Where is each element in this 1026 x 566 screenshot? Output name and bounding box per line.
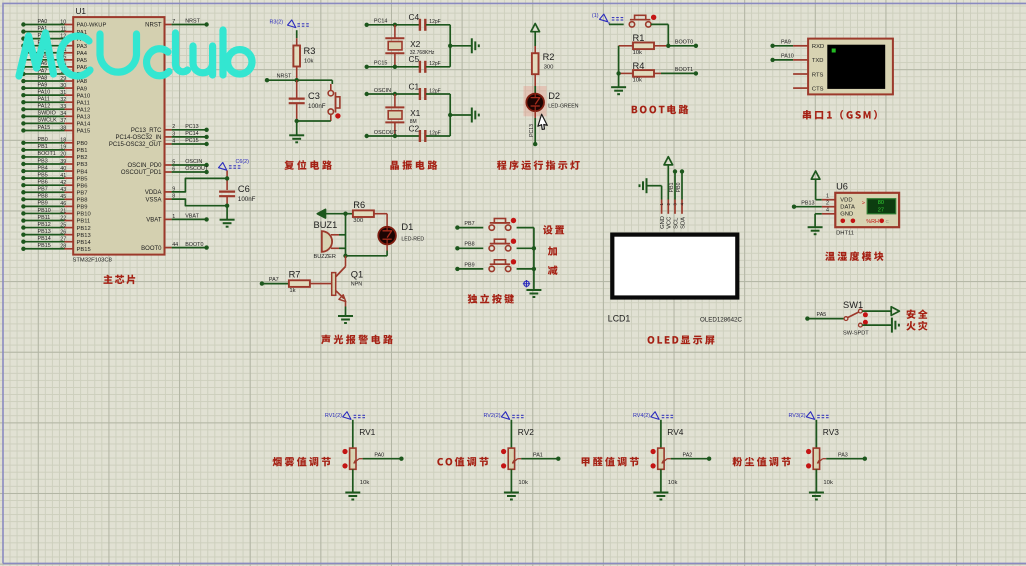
resistor R4 (619, 72, 633, 74)
title 烟雾值调节 (272, 457, 330, 467)
svg-text:RV1(2): RV1(2) (325, 413, 342, 419)
svg-text:R2: R2 (543, 52, 555, 62)
svg-text:PC13_RTC: PC13_RTC (131, 128, 162, 134)
wire OLED GND (647, 185, 662, 187)
title temperature humidity module (825, 251, 883, 261)
svg-text:PA14: PA14 (77, 122, 92, 128)
svg-text:4: 4 (826, 208, 829, 214)
wire alarm top node (343, 212, 347, 216)
svg-text:D2: D2 (548, 91, 560, 101)
svg-text:PB4: PB4 (38, 165, 48, 171)
wire PA2 row (21, 33, 73, 41)
svg-text:LED-GREEN: LED-GREEN (548, 103, 579, 109)
svg-text:PA0: PA0 (374, 452, 384, 458)
capacitor C5 (419, 61, 421, 73)
potentiometer RV4 (658, 448, 664, 469)
wire C4 right (426, 24, 450, 26)
svg-text:45: 45 (60, 194, 66, 200)
wire PA5 row (21, 54, 73, 62)
svg-text:PB14: PB14 (38, 236, 51, 242)
svg-text:30: 30 (60, 83, 66, 89)
ground alarm (338, 315, 353, 317)
wire PB0 row (21, 137, 73, 145)
wire net OSCIN (365, 92, 369, 96)
label minus key (548, 265, 558, 275)
svg-text:300: 300 (544, 65, 555, 71)
wire PA0 row (21, 19, 73, 27)
wire RV3 to ground (815, 469, 817, 492)
wire net PA7 (260, 281, 264, 285)
virtual terminal cursor (832, 49, 836, 53)
svg-text:>: > (862, 201, 865, 207)
wire RV2 to ground (510, 469, 512, 492)
svg-text:BOOT0: BOOT0 (185, 242, 203, 248)
chip pin PC13 (2) (165, 129, 172, 131)
power arrow SW1 (891, 307, 899, 316)
svg-text:PB1: PB1 (77, 148, 88, 154)
svg-text:37: 37 (60, 118, 66, 124)
svg-text:80: 80 (878, 200, 884, 206)
svg-text:PA10: PA10 (38, 89, 51, 95)
virtual terminal screen (827, 45, 885, 89)
module U6 box (835, 193, 899, 227)
svg-text:U1: U1 (76, 7, 87, 16)
DHT11 pin GND (822, 213, 836, 215)
svg-text:PA3: PA3 (77, 44, 88, 50)
svg-text:PB10: PB10 (38, 208, 51, 214)
svg-text:PC15: PC15 (185, 138, 199, 144)
svg-text:VBAT: VBAT (146, 218, 162, 224)
capacitor C6 (219, 191, 235, 193)
svg-text:PC14: PC14 (185, 131, 199, 137)
label set key (543, 225, 564, 234)
svg-text:PB5: PB5 (77, 176, 88, 182)
svg-text:1: 1 (826, 193, 829, 199)
wire PA6 row (21, 61, 73, 69)
svg-text:PA11: PA11 (38, 97, 50, 103)
wire PB2 row (21, 151, 73, 159)
chip pin PC15 (4) (165, 143, 172, 145)
svg-text:PA5: PA5 (77, 58, 88, 64)
wire PB1 row (21, 144, 73, 152)
wire R7 to base (311, 283, 332, 285)
svg-text:C3: C3 (308, 91, 320, 101)
wire BOOT left bus (618, 46, 620, 87)
svg-text:PB8: PB8 (464, 242, 474, 248)
svg-text:PB7: PB7 (77, 190, 88, 196)
wire net PB0 SDA (680, 169, 684, 173)
svg-text:BUZ1: BUZ1 (314, 220, 338, 230)
DHT11 pin VDD (822, 199, 836, 201)
svg-text:PB1: PB1 (669, 182, 675, 192)
terminal R3(2) (288, 20, 296, 28)
wire PB4 row (21, 165, 73, 173)
wire button bottom to C3 bottom (330, 114, 332, 121)
svg-text:SCL: SCL (673, 217, 679, 229)
svg-text:GND: GND (660, 216, 666, 229)
svg-text:RV4(2): RV4(2) (633, 413, 650, 419)
title main chip (103, 275, 135, 285)
svg-text:PA1: PA1 (533, 452, 543, 458)
capacitor C3 (296, 80, 298, 99)
wire SW1 bottom throw (862, 324, 891, 326)
svg-text:PC13: PC13 (185, 124, 199, 130)
svg-text:RTS: RTS (812, 72, 824, 78)
ground crystal X2 (471, 38, 473, 53)
capacitor C2 (419, 130, 421, 142)
svg-text:PC14: PC14 (374, 19, 388, 25)
wire PA13 row (21, 111, 73, 119)
svg-text:PB7: PB7 (464, 221, 474, 227)
svg-text:PB14: PB14 (77, 240, 92, 246)
svg-text:C5: C5 (409, 54, 420, 64)
svg-text:PB6: PB6 (77, 183, 88, 189)
svg-text:SWDIO: SWDIO (38, 111, 56, 117)
wire PA10 row (21, 89, 73, 97)
wire PA7 row (21, 68, 73, 76)
svg-text:SW-SPDT: SW-SPDT (843, 331, 869, 337)
wire net PC15 (365, 65, 369, 69)
wire PA3 row (21, 40, 73, 48)
wire PA12 row (21, 104, 73, 112)
title 粉尘值调节 (732, 457, 790, 467)
wire PA9 row (21, 82, 73, 90)
potentiometer RV1 (350, 448, 356, 469)
wire terminal to RV1 (352, 420, 354, 448)
svg-text:PB13: PB13 (77, 233, 91, 239)
svg-text:PA4: PA4 (77, 51, 88, 57)
svg-text:LCD1: LCD1 (608, 313, 631, 323)
svg-text:PB15: PB15 (77, 247, 91, 253)
chip pin OSCIN (5) (165, 164, 172, 166)
svg-text:SDA: SDA (680, 217, 686, 229)
svg-text:PB11: PB11 (77, 219, 91, 225)
wire VSSA to C6 (172, 199, 228, 206)
svg-text:RV2(2): RV2(2) (484, 413, 501, 419)
svg-text:10k: 10k (823, 480, 833, 486)
wire RV4 to ground (660, 469, 662, 492)
wire terminal to RV3 (815, 420, 817, 448)
svg-text:RXD: RXD (812, 44, 824, 50)
push button PB9 (489, 266, 494, 271)
svg-text:R1: R1 (633, 33, 645, 43)
svg-text:SW1: SW1 (843, 300, 863, 310)
svg-text:PB1: PB1 (38, 144, 48, 150)
title independent keys (468, 294, 514, 304)
svg-text:RV4: RV4 (667, 427, 683, 437)
chip pin OSCOUT (6) (165, 171, 172, 173)
svg-text:PA5: PA5 (817, 312, 827, 318)
ground BOOT (611, 86, 626, 88)
svg-text:PA7: PA7 (269, 277, 279, 283)
svg-text:33: 33 (60, 104, 66, 110)
wire PB3 row (21, 158, 73, 166)
label fire (906, 321, 927, 331)
wire PA14 row (21, 118, 73, 126)
svg-text:PA15: PA15 (77, 129, 91, 135)
origin marker (524, 281, 529, 286)
svg-text:PC14-OSC32_IN: PC14-OSC32_IN (115, 135, 161, 141)
svg-text:PA11: PA11 (77, 100, 90, 106)
svg-text:PA3: PA3 (838, 452, 848, 458)
transistor Q1 (345, 256, 347, 267)
svg-text:R3(2): R3(2) (270, 19, 284, 25)
svg-text:PA12: PA12 (77, 107, 91, 113)
wire PA4 row (21, 47, 73, 55)
wire DHT11 GND to ground (815, 213, 822, 215)
svg-text:NRST: NRST (277, 74, 292, 80)
svg-text:VCC: VCC (667, 217, 673, 229)
svg-text:R4: R4 (633, 61, 645, 71)
mouse cursor (537, 114, 550, 130)
power arrow alarm (317, 209, 325, 218)
crystal X2 (394, 25, 396, 38)
title 甲醛值调节 (582, 457, 639, 467)
wire R3 top (296, 30, 298, 38)
svg-text:C2: C2 (409, 123, 420, 133)
chip pin VDDA (9) (165, 191, 172, 193)
ground SW1 (891, 318, 893, 333)
svg-text:PA2: PA2 (683, 452, 693, 458)
wire RV1 to ground (352, 469, 354, 492)
wire net PA9 (770, 44, 774, 48)
svg-text:RV3: RV3 (823, 427, 839, 437)
svg-text:RV3(2): RV3(2) (789, 413, 806, 419)
svg-text:PB8: PB8 (38, 194, 48, 200)
wire PA1 row (21, 26, 73, 34)
svg-text:29: 29 (60, 76, 66, 82)
svg-text:OSCIN: OSCIN (185, 159, 202, 165)
wire D1 to collector node (386, 244, 388, 250)
svg-text:PA13: PA13 (77, 115, 91, 121)
svg-text:PA10: PA10 (781, 54, 794, 60)
wire net PB1 SCL (673, 169, 677, 173)
svg-text:PB4: PB4 (77, 169, 89, 175)
LED D2 (534, 86, 536, 94)
title OLED display (648, 335, 715, 344)
svg-text:BOOT1: BOOT1 (675, 67, 693, 73)
svg-text:42: 42 (60, 180, 66, 186)
svg-text:VDDA: VDDA (145, 190, 162, 196)
wire PB6 row (21, 179, 73, 187)
svg-text:27: 27 (878, 208, 884, 214)
wire net BOOT0 (666, 44, 670, 48)
svg-text:NRST: NRST (185, 19, 200, 25)
potentiometer RV3 (813, 448, 819, 469)
terminal RV4(2) (651, 412, 659, 420)
svg-text:34: 34 (60, 111, 66, 117)
wire net PA0 (363, 458, 402, 460)
push button PB8 (489, 246, 494, 251)
svg-text:27: 27 (60, 237, 66, 243)
ground OLED GND pin (646, 178, 648, 193)
wire terminal to button (608, 22, 610, 24)
svg-text:LED-RED: LED-RED (401, 237, 424, 243)
svg-text:20: 20 (60, 152, 66, 158)
svg-text:PB9: PB9 (38, 201, 48, 207)
svg-text:%RH: %RH (866, 219, 879, 225)
wire to R2 (534, 46, 536, 53)
svg-text:31: 31 (60, 90, 66, 96)
wire net PA3 (826, 458, 865, 460)
wire C6 bottom (226, 196, 228, 206)
chip pin VBAT (1) (165, 218, 172, 220)
svg-text:PB5: PB5 (38, 172, 48, 178)
wire PB9 row (21, 201, 73, 209)
wire NRST down to button (331, 80, 333, 84)
svg-text:PC15-OSC32_OUT: PC15-OSC32_OUT (109, 142, 162, 148)
svg-text:RV2: RV2 (518, 427, 534, 437)
svg-text:PB11: PB11 (38, 215, 51, 221)
highlight box D2 (524, 86, 547, 116)
svg-text:PB15: PB15 (38, 243, 51, 249)
title crystal circuit (390, 160, 437, 170)
svg-text:STM32F103C8: STM32F103C8 (73, 257, 112, 263)
virtual terminal box (808, 39, 893, 95)
svg-text:PB3: PB3 (38, 158, 48, 164)
svg-text:PB9: PB9 (77, 205, 88, 211)
svg-text:PB3: PB3 (77, 162, 88, 168)
svg-text:BUZZER: BUZZER (314, 254, 336, 260)
svg-text:10: 10 (60, 19, 66, 25)
svg-text:19: 19 (60, 145, 66, 151)
svg-text:R6: R6 (353, 200, 365, 210)
resistor R3 (293, 46, 300, 67)
svg-text:100nF: 100nF (308, 103, 326, 110)
wire net PA1 (521, 458, 558, 460)
ground reset circuit (289, 134, 304, 136)
wire C2 right (426, 135, 450, 137)
wire net PB7 (455, 225, 459, 229)
DHT11 display screen (867, 199, 896, 214)
svg-text:300: 300 (353, 218, 364, 224)
wire PB8 row (21, 194, 73, 202)
svg-text:21: 21 (60, 208, 66, 214)
svg-text:10k: 10k (633, 77, 643, 83)
ground keys (526, 289, 541, 291)
terminal RV2(2) (501, 412, 509, 420)
svg-text:PA15: PA15 (38, 125, 51, 131)
title reset circuit (284, 160, 332, 170)
svg-text:PB10: PB10 (77, 212, 91, 218)
ground DHT11 (808, 226, 823, 228)
wire C3 to ground (296, 103, 298, 121)
power arrow OLED VCC (664, 157, 673, 165)
svg-text:BOOT0: BOOT0 (675, 40, 693, 46)
wire net NRST (265, 78, 269, 82)
chip U1 internal pin names (77, 23, 163, 253)
wire net PA5 (805, 316, 809, 320)
title BOOT circuit (632, 105, 689, 114)
svg-text:C6(2): C6(2) (236, 159, 250, 165)
svg-text:32: 32 (60, 97, 66, 103)
wire R3 to NRST node (296, 67, 298, 81)
crystal X1 (394, 94, 396, 107)
ground RV1 (345, 492, 360, 494)
svg-text:25: 25 (60, 222, 66, 228)
svg-text:C1: C1 (409, 81, 420, 91)
svg-text:PA0: PA0 (38, 19, 48, 25)
svg-text:PB9: PB9 (464, 262, 474, 268)
svg-text:43: 43 (60, 187, 66, 193)
svg-text:PA12: PA12 (38, 104, 51, 110)
wire button PB8 to bus (517, 247, 534, 249)
resistor R1 (619, 45, 633, 47)
svg-text:VDD: VDD (840, 197, 852, 203)
title CO值调节 (437, 457, 488, 467)
resistor R2 (532, 53, 539, 74)
title alarm circuit (321, 335, 393, 345)
potentiometer RV2 (508, 448, 514, 469)
svg-text:OSCIN: OSCIN (374, 88, 391, 94)
svg-text:PC15: PC15 (374, 61, 388, 67)
svg-text:SWCLK: SWCLK (38, 118, 58, 124)
svg-text:PC13: PC13 (529, 124, 535, 137)
svg-text:100nF: 100nF (238, 196, 256, 203)
terminal RV1(2) (343, 412, 351, 420)
push button reset (328, 91, 333, 96)
svg-text:D1: D1 (401, 222, 413, 232)
svg-text:NRST: NRST (145, 23, 162, 29)
svg-text:VSSA: VSSA (145, 197, 161, 203)
wire C1 right (426, 93, 450, 95)
push button BOOT (629, 22, 634, 27)
svg-text:GND: GND (840, 212, 853, 218)
push button PB7 (489, 225, 494, 230)
ground below C6 (220, 219, 235, 221)
svg-text:26: 26 (60, 229, 66, 235)
svg-text:38: 38 (60, 125, 66, 131)
svg-text:R7: R7 (289, 269, 301, 279)
svg-text:PA9: PA9 (77, 86, 88, 92)
svg-text:CTS: CTS (812, 86, 824, 92)
wire PB5 row (21, 172, 73, 180)
wire net PB8 (455, 246, 459, 250)
svg-text:46: 46 (60, 201, 66, 207)
wire net PB9 (455, 267, 459, 271)
svg-text:1k: 1k (289, 288, 295, 294)
svg-text:DHT11: DHT11 (836, 231, 854, 237)
wire crystal right bus (449, 25, 451, 67)
chip pin NRST (7) (165, 24, 172, 26)
svg-text:10k: 10k (633, 50, 643, 56)
svg-text:PA8: PA8 (38, 75, 48, 81)
svg-text:2: 2 (826, 200, 829, 206)
wire D2 to PC13 (534, 111, 536, 118)
wire C6 top (226, 171, 228, 191)
switch SW1 (844, 317, 848, 321)
ground RV3 (809, 492, 824, 494)
wire net OSCOUT (365, 134, 369, 138)
svg-text:OSCOUT_PD1: OSCOUT_PD1 (121, 170, 162, 176)
svg-text:OSCIN_PD0: OSCIN_PD0 (127, 163, 162, 169)
wire PA11 row (21, 97, 73, 105)
svg-text:PA10: PA10 (77, 93, 91, 99)
terminal (1) (600, 14, 608, 22)
svg-text:TXD: TXD (812, 58, 824, 64)
svg-text:PB12: PB12 (77, 226, 91, 232)
wire VDDA to C6 (172, 178, 228, 192)
svg-text:PA9: PA9 (781, 39, 791, 45)
chip U1 body (73, 17, 164, 255)
resistor R6 (353, 210, 374, 217)
svg-text:R3: R3 (304, 46, 316, 56)
wire SW1 top throw (862, 310, 891, 312)
svg-text:PB13: PB13 (801, 200, 814, 206)
svg-text:11: 11 (61, 26, 67, 32)
svg-text:PA9: PA9 (38, 82, 48, 88)
svg-text:10k: 10k (360, 480, 370, 486)
